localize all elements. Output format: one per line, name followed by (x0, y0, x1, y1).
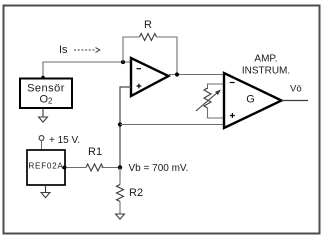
svg-text:R: R (144, 19, 152, 31)
node junction at REF02A output (63, 166, 67, 170)
wire REF02A to R1 (65, 167, 86, 169)
svg-text:G: G (246, 94, 255, 106)
wire R2 to ground (119, 202, 121, 215)
inst amp plus sign (230, 113, 235, 118)
svg-text:REF02A: REF02A (28, 162, 63, 171)
node junction plus rail (118, 122, 122, 126)
wire op-amp output to instrumentation amp minus input (169, 74, 225, 76)
svg-text:R2: R2 (129, 187, 143, 199)
voltage reference REF02A (27, 150, 65, 185)
sensor ground (39, 108, 48, 122)
wire feedback right side (157, 37, 178, 75)
sensor box (20, 79, 72, 109)
output wire Vo (282, 100, 309, 102)
node Vb (118, 165, 122, 169)
node junction inverting input (121, 60, 125, 64)
resistor R2 (117, 185, 124, 202)
svg-text:R1: R1 (88, 146, 102, 158)
inst amp minus sign (230, 82, 235, 84)
op-amp plus sign (137, 84, 142, 89)
svg-text:Vö: Vö (290, 84, 302, 95)
node junction feedback/output (175, 72, 179, 76)
svg-text:Vb = 700 mV.: Vb = 700 mV. (129, 163, 189, 174)
wire Vb to R2 (119, 168, 121, 185)
svg-text:INSTRUM.: INSTRUM. (242, 66, 290, 77)
op-amp minus sign (137, 68, 142, 70)
wire sensor top to inverting node (43, 62, 131, 78)
op-amp U1 (131, 58, 169, 96)
variable gain resistor RG (204, 88, 211, 108)
node junction at sensor box top (41, 76, 45, 80)
svg-text:+ 15 V.: + 15 V. (49, 135, 80, 146)
wire feedback loop (123, 37, 140, 62)
wire terminal to REF02A (41, 141, 43, 151)
svg-text:Is: Is (59, 44, 68, 56)
variable resistor arrow (196, 90, 221, 112)
svg-text:AMP.: AMP. (254, 54, 277, 65)
REF02A ground (41, 185, 50, 198)
resistor R (140, 34, 157, 41)
wire R1 to Vb node (102, 167, 121, 169)
resistor R1 (86, 164, 103, 171)
wire to instrumentation amp plus input (120, 124, 224, 126)
gain resistor bracket (208, 84, 225, 89)
+15V terminal (39, 136, 44, 141)
instrumentation amplifier U2 (224, 73, 282, 128)
wire op-amp plus input down (120, 87, 131, 168)
ground below R2 (116, 214, 125, 219)
current direction dashed arrow (74, 48, 100, 53)
